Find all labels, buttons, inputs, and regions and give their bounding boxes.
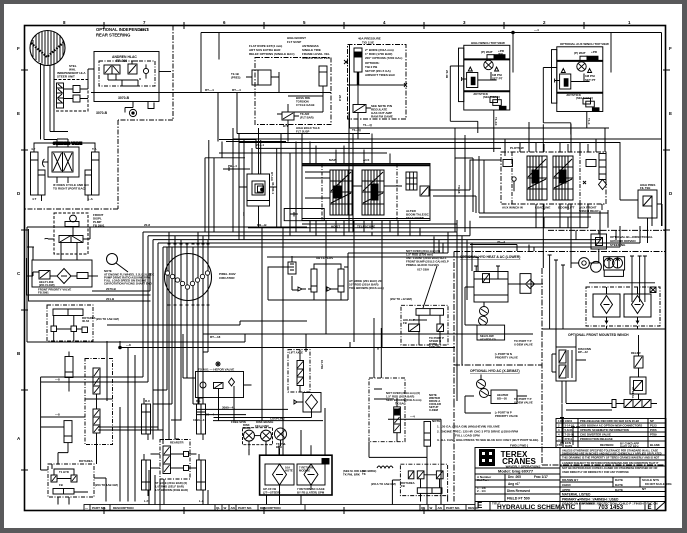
border zone ticks left bbox=[21, 70, 28, 470]
shuttle bbox=[490, 97, 498, 103]
right-mid pilot loop bbox=[390, 232, 517, 401]
svg-text:—4: —4 bbox=[410, 415, 415, 419]
svg-text:DESCRIPTION: DESCRIPTION bbox=[260, 506, 281, 510]
connector ticks below circle bbox=[168, 304, 210, 306]
AB LEVERS group bbox=[268, 256, 344, 300]
label text bbox=[57, 71, 86, 79]
label text bbox=[362, 469, 415, 488]
accumulator A2 bbox=[354, 48, 362, 72]
svg-text:10-70R: 10-70R bbox=[320, 360, 324, 369]
svg-text:4.T: 4.T bbox=[32, 197, 37, 201]
svg-text:DATE: DATE bbox=[565, 444, 573, 448]
node J1 bbox=[512, 31, 515, 34]
svg-text:1. 150 GA. (201A GM) (HM) (H: 1. 150 GA. (201A GM) (HM) (HEVM) VOLUME bbox=[437, 425, 500, 429]
svg-text:W: W bbox=[224, 506, 227, 510]
svg-text:T1 HYD: T1 HYD bbox=[59, 470, 69, 474]
svg-text:T1—Q: T1—Q bbox=[363, 123, 373, 127]
wire group bbox=[349, 112, 529, 128]
long verticals near pilot cluster bbox=[205, 140, 324, 240]
cylinder C-RO bbox=[369, 422, 431, 458]
manifold bbox=[474, 272, 508, 303]
svg-text:AN: AN bbox=[231, 506, 235, 510]
accumulator A1 bbox=[319, 66, 327, 86]
staircase bbox=[153, 247, 172, 404]
svg-text:E: E bbox=[648, 505, 652, 511]
svg-text:P123: P123 bbox=[650, 424, 657, 428]
independent steer unit box (dashed) bbox=[54, 69, 94, 111]
svg-text:(201 FLOW): (201 FLOW) bbox=[39, 283, 55, 287]
connector ticks above circle bbox=[168, 243, 210, 245]
svg-text:PRIMAL BLOCK VALVES: PRIMAL BLOCK VALVES bbox=[406, 263, 439, 267]
svg-text:RELIEF: RELIEF bbox=[631, 351, 641, 355]
steering wheel W1 bbox=[30, 31, 65, 66]
steering valve SV1 bbox=[31, 139, 100, 201]
pressure reducing valve PR1 bbox=[247, 174, 270, 201]
svg-text:—8: —8 bbox=[55, 378, 60, 382]
svg-text:TO RIGHT (PORT BAC): TO RIGHT (PORT BAC) bbox=[53, 187, 86, 191]
svg-text:BP—42: BP—42 bbox=[578, 350, 588, 354]
verticals joining bbox=[290, 142, 296, 237]
wire group bbox=[465, 375, 527, 414]
svg-text:OPTIONAL FRONT MOUNTED WINC: OPTIONAL FRONT MOUNTED WINCH bbox=[568, 333, 629, 337]
logo square bbox=[479, 449, 495, 466]
svg-text:DATE: DATE bbox=[615, 488, 623, 492]
rear axle enable valve bbox=[184, 362, 252, 398]
svg-text:3070-B: 3070-B bbox=[118, 96, 130, 100]
svg-text:Frac 1/17: Frac 1/17 bbox=[534, 475, 548, 479]
svg-text:FIELD FT 500: FIELD FT 500 bbox=[507, 497, 530, 501]
label text bbox=[38, 280, 71, 295]
svg-text:—4: —4 bbox=[534, 28, 539, 32]
label text bbox=[228, 143, 275, 227]
label text bbox=[106, 223, 150, 301]
svg-text:P456: P456 bbox=[650, 428, 657, 432]
manifold outline bbox=[302, 164, 430, 221]
border zone ticks right bbox=[663, 70, 670, 230]
label text bbox=[610, 235, 653, 247]
wire main supply bbox=[91, 92, 331, 94]
revision table text bbox=[557, 419, 660, 449]
svg-text:TK: TK bbox=[362, 472, 366, 476]
svg-text:W: W bbox=[430, 506, 433, 510]
svg-text:GRADE ON ■OPTIONS □PROTE: GRADE ON ■OPTIONS □PROTECTION □CHILD P □… bbox=[562, 502, 644, 506]
svg-text:RAM FM GAME: RAM FM GAME bbox=[371, 115, 393, 119]
border zone ticks top bbox=[104, 22, 584, 29]
pump suction / filter circuit box bbox=[27, 260, 98, 287]
svg-text:X-DEM: X-DEM bbox=[429, 408, 439, 412]
svg-text:ROTAREA: ROTAREA bbox=[79, 459, 93, 463]
svg-text:BRKE: BRKE bbox=[243, 426, 251, 430]
right margin long wire bbox=[611, 33, 662, 227]
svg-text:AUX WINCH W: AUX WINCH W bbox=[502, 206, 523, 210]
svg-text:LIFT AXLE: LIFT AXLE bbox=[289, 351, 303, 355]
brake release box bottom bbox=[48, 464, 94, 497]
svg-text:(202 TO +12 BM): (202 TO +12 BM) bbox=[390, 297, 412, 301]
svg-text:APPD: APPD bbox=[562, 488, 571, 492]
svg-text:Dims Removed: Dims Removed bbox=[507, 489, 530, 493]
wire RT-4 top bbox=[201, 32, 611, 34]
label text bbox=[390, 249, 449, 325]
lift axle filter bbox=[294, 393, 321, 418]
leader text bbox=[423, 266, 437, 308]
svg-text:/FB: /FB bbox=[498, 52, 504, 56]
coil bbox=[377, 466, 393, 468]
vertical x=218 hand pump to bus bbox=[217, 93, 219, 142]
steering links top-left bbox=[44, 132, 68, 140]
svg-text:(SELF BAC): (SELF BAC) bbox=[576, 96, 593, 100]
svg-text:NP: NP bbox=[650, 419, 654, 423]
spool stack bbox=[57, 83, 64, 108]
svg-text:CYCLE GAGE: CYCLE GAGE bbox=[296, 103, 315, 107]
tank box bbox=[77, 273, 88, 279]
svg-text:DATE OF REV: DATE OF REV bbox=[620, 445, 639, 449]
lockout valve tall box bbox=[85, 359, 113, 445]
svg-text:REAR STEERING: REAR STEERING bbox=[96, 33, 130, 38]
wire bus2 bbox=[148, 221, 470, 236]
svg-text:LTR: LTR bbox=[557, 443, 562, 447]
valve V1 bbox=[282, 112, 294, 120]
svg-text:Model: bmg 60X77: Model: bmg 60X77 bbox=[498, 469, 534, 474]
svg-text:RT—4: RT—4 bbox=[140, 28, 149, 32]
svg-text:QL: QL bbox=[216, 506, 220, 510]
svg-text:—8: —8 bbox=[126, 343, 131, 347]
svg-text:DRAWN BY: DRAWN BY bbox=[562, 478, 578, 482]
wire steering wheel to valve bbox=[44, 66, 50, 80]
svg-text:(JT—STEER): (JT—STEER) bbox=[263, 491, 280, 495]
svg-text:SET PT: SET PT bbox=[492, 77, 503, 81]
svg-text:RELEF OPTIONS (SINGLE BAC): RELEF OPTIONS (SINGLE BAC) bbox=[249, 52, 295, 56]
svg-text:(P) WHT: (P) WHT bbox=[574, 51, 586, 55]
svg-text:BLANK: BLANK bbox=[650, 443, 660, 447]
svg-text:FB: FB bbox=[403, 321, 407, 325]
svg-text:STEER UNIT: STEER UNIT bbox=[57, 75, 75, 79]
svg-text:LOANED SUBJECT TO RETURN UPON: LOANED SUBJECT TO RETURN UPON DEMAND AND… bbox=[562, 461, 659, 465]
pilot column extras bbox=[214, 139, 261, 240]
svg-text:(203 TO 1AB GM): (203 TO 1AB GM) bbox=[96, 317, 119, 321]
label text bbox=[193, 335, 235, 422]
bank drop wires long bbox=[262, 228, 283, 455]
label text bbox=[640, 183, 656, 190]
svg-text:WINCH REAR: WINCH REAR bbox=[579, 209, 599, 213]
svg-text:T1-X: T1-X bbox=[587, 118, 591, 125]
valve squares inside bbox=[104, 65, 112, 74]
svg-text:(FLT BAR): (FLT BAR) bbox=[300, 116, 314, 120]
svg-text:PRODUCTION RELEASE: PRODUCTION RELEASE bbox=[580, 437, 613, 441]
svg-text:AIRSOFT TIRES BAC: AIRSOFT TIRES BAC bbox=[365, 73, 396, 77]
svg-text:RT—4: RT—4 bbox=[205, 88, 214, 92]
svg-text:CTRBAL: CTRBAL bbox=[631, 387, 635, 399]
svg-text:T1-XX: T1-XX bbox=[494, 117, 498, 126]
svg-text:OPTIONAL HYD AC (X-DEMAT): OPTIONAL HYD AC (X-DEMAT) bbox=[470, 369, 520, 373]
drain line to gauge bbox=[125, 102, 133, 113]
spool boom lift bbox=[553, 156, 573, 200]
svg-text:—8: —8 bbox=[55, 413, 60, 417]
svg-text:DATE: DATE bbox=[615, 483, 623, 487]
svg-text:BY FB (LATER) GPM: BY FB (LATER) GPM bbox=[297, 491, 325, 495]
svg-text:X17 GBH: X17 GBH bbox=[417, 268, 429, 272]
note text block bbox=[104, 269, 154, 286]
svg-text:FB 2991: FB 2991 bbox=[38, 291, 49, 295]
wire group bbox=[33, 31, 63, 66]
svg-text:PRIORITY VALVE: PRIORITY VALVE bbox=[495, 414, 518, 418]
spool telescope bbox=[362, 170, 384, 215]
svg-text:MAIN: MAIN bbox=[329, 158, 337, 162]
svg-text:SCALE NTS: SCALE NTS bbox=[642, 478, 659, 482]
cylinder C1 bbox=[252, 70, 271, 85]
svg-text:PRIORITY VALVE: PRIORITY VALVE bbox=[495, 356, 518, 360]
motor circle M2 bbox=[577, 62, 586, 71]
bottom strip verticals bbox=[149, 470, 164, 505]
label text bbox=[96, 55, 137, 115]
svg-text:FB 200: FB 200 bbox=[116, 59, 127, 63]
spool hoist bbox=[330, 170, 352, 215]
svg-text:BOOM LIFT: BOOM LIFT bbox=[558, 206, 575, 210]
wire bus5 bbox=[163, 226, 620, 247]
svg-text:L.A: L.A bbox=[199, 499, 205, 503]
label text bbox=[560, 42, 609, 125]
svg-text:HOTE: HOTE bbox=[285, 469, 293, 473]
wheel hub circulator circle bbox=[165, 254, 212, 301]
svg-text:OPTIONAL AUX WINCH TOP VIE: OPTIONAL AUX WINCH TOP VIEW bbox=[560, 42, 609, 46]
svg-text:L.F: L.F bbox=[144, 499, 149, 503]
svg-text:RT—18: RT—18 bbox=[210, 335, 221, 339]
wires into rear steer valve bbox=[165, 438, 179, 441]
svg-text:LOADLINE: LOADLINE bbox=[535, 206, 550, 210]
check comp bbox=[634, 356, 643, 368]
svg-text:PART NO.: PART NO. bbox=[238, 506, 252, 510]
connecting verticals right half bbox=[455, 124, 648, 247]
relief section right bbox=[406, 172, 417, 190]
label text bbox=[263, 466, 365, 495]
svg-text:DIMENSIONS ARE IN INCHES AND I: DIMENSIONS ARE IN INCHES AND INCLUDE CHE… bbox=[562, 452, 662, 456]
svg-text:PLOTS.W: PLOTS.W bbox=[510, 146, 524, 150]
wire group bbox=[465, 266, 543, 340]
svg-text:FWD "P": FWD "P" bbox=[429, 345, 441, 349]
label text bbox=[144, 399, 205, 503]
label text bbox=[578, 347, 641, 399]
counterbalance bbox=[630, 377, 646, 394]
svg-text:20-1B: 20-1B bbox=[445, 70, 449, 79]
drain ticks bbox=[560, 418, 580, 446]
svg-text:MATERIAL LISTED: MATERIAL LISTED bbox=[562, 493, 591, 497]
label text bbox=[17, 20, 673, 441]
svg-text:201-B: 201-B bbox=[106, 297, 115, 301]
steering cylinders left pair bbox=[31, 152, 39, 195]
rear steer valve RSV (dashed) bbox=[151, 440, 197, 480]
wire bus4 bbox=[158, 226, 640, 243]
svg-text:FULL LOAD GPM: FULL LOAD GPM bbox=[455, 434, 480, 438]
label text bbox=[231, 72, 320, 134]
motor circle M bbox=[484, 60, 493, 69]
svg-text:DATE: DATE bbox=[615, 478, 623, 482]
svg-text:30-200-1: 30-200-1 bbox=[271, 182, 275, 194]
wire loop below suspension bbox=[237, 93, 370, 164]
chain V inside circle bbox=[165, 271, 209, 289]
svg-text:CHG DIVERTER VALVE: CHG DIVERTER VALVE bbox=[580, 433, 611, 437]
svg-text:BYP: BYP bbox=[283, 124, 289, 128]
misc left bbox=[27, 247, 33, 260]
svg-text:4.T: 4.T bbox=[31, 147, 36, 151]
svg-text:T/O 2.5E: T/O 2.5E bbox=[362, 41, 374, 45]
title block outline bbox=[475, 448, 666, 511]
label text bbox=[59, 459, 118, 487]
wire bus1 bbox=[143, 221, 457, 232]
right side extras bbox=[524, 245, 534, 252]
svg-text:UPDATE SCHEMATIC INFORMATION: UPDATE SCHEMATIC INFORMATION bbox=[580, 428, 629, 432]
logo cell bbox=[475, 448, 666, 511]
svg-text:E: E bbox=[17, 111, 20, 116]
svg-text:FIL TEE: FIL TEE bbox=[640, 186, 650, 190]
svg-text:PART NO.: PART NO. bbox=[92, 506, 106, 510]
horizontal runs lower center bbox=[27, 321, 533, 421]
svg-text:—: — bbox=[558, 437, 561, 441]
svg-text:TO AX1 — HEFOR VALVE: TO AX1 — HEFOR VALVE bbox=[198, 368, 234, 372]
svg-text:30-62: 30-62 bbox=[82, 319, 90, 323]
right pair bbox=[92, 152, 100, 195]
label text bbox=[338, 37, 402, 133]
pump circles P3 bbox=[477, 380, 486, 389]
svg-text:FLT SUSP: FLT SUSP bbox=[296, 130, 309, 134]
svg-text:Dec .005: Dec .005 bbox=[508, 475, 521, 479]
svg-text:PART NO.: PART NO. bbox=[446, 506, 460, 510]
svg-text:20-8: 20-8 bbox=[144, 223, 150, 227]
rear axle cylinders RC bbox=[142, 398, 206, 496]
svg-text:200" OPTIONS (7200 GAL): 200" OPTIONS (7200 GAL) bbox=[365, 56, 402, 60]
svg-text:1090—41: 1090—41 bbox=[193, 418, 206, 422]
svg-text:X-DEM VALVE: X-DEM VALVE bbox=[514, 401, 533, 405]
svg-text:REARSTR: REARSTR bbox=[170, 441, 184, 445]
label text bbox=[85, 506, 479, 510]
label text bbox=[316, 256, 384, 290]
svg-text:+PR: +PR bbox=[591, 50, 598, 54]
valve bbox=[483, 274, 490, 283]
svg-text:AN: AN bbox=[438, 506, 442, 510]
svg-text:DESCRIPTION: DESCRIPTION bbox=[113, 506, 134, 510]
svg-text:TK BAC: TK BAC bbox=[395, 402, 406, 406]
condenser diamond bbox=[526, 280, 535, 289]
svg-text:TELE DOWN: TELE DOWN bbox=[406, 216, 424, 220]
svg-text:SET PT: SET PT bbox=[585, 78, 596, 82]
left inlet bbox=[503, 160, 513, 167]
wire -8 junction bbox=[27, 227, 455, 401]
valve V2 bbox=[353, 105, 366, 113]
svg-text:DO NOT SCALE DWG: DO NOT SCALE DWG bbox=[645, 482, 672, 486]
svg-text:FWD [ FWD ]: FWD [ FWD ] bbox=[510, 444, 528, 448]
label text bbox=[231, 417, 286, 450]
svg-text:T1—Q: T1—Q bbox=[352, 128, 362, 132]
svg-text:DESCR: DESCR bbox=[468, 506, 479, 510]
inter-bank wires bbox=[433, 160, 501, 190]
svg-text:QL: QL bbox=[421, 506, 425, 510]
label text bbox=[429, 334, 533, 360]
border zone ticks bottom bbox=[104, 507, 424, 514]
filter F1 bbox=[57, 269, 71, 284]
suspension text block bbox=[249, 36, 330, 60]
svg-text:SINGLE ROAD VEH: SINGLE ROAD VEH bbox=[302, 56, 330, 60]
nested return frame lines bbox=[27, 227, 308, 301]
svg-text:R.C: R.C bbox=[145, 399, 151, 403]
wire bus3 bbox=[153, 211, 600, 240]
svg-text:HIGH WINCH TOP VIEW: HIGH WINCH TOP VIEW bbox=[471, 41, 505, 45]
hydraulic tank with return filters bbox=[260, 455, 332, 495]
supply rails to second bank bbox=[233, 139, 662, 143]
lift axle valve (dash-dot) bbox=[288, 350, 310, 393]
label text bbox=[329, 158, 430, 229]
svg-text:FB: FB bbox=[401, 484, 405, 488]
right part rows bbox=[560, 455, 666, 497]
svg-text:20—1: 20—1 bbox=[256, 143, 264, 147]
text above bbox=[386, 391, 421, 406]
svg-text:PRE-RELEASE RECORD NO SER ECN: PRE-RELEASE RECORD NO SER ECN 20-98 bbox=[580, 419, 639, 423]
svg-text:FB: FB bbox=[59, 483, 63, 487]
svg-text:(P) WHT: (P) WHT bbox=[481, 50, 493, 54]
svg-text:Ang ±1°: Ang ±1° bbox=[508, 482, 521, 486]
gauge circle G1 bbox=[107, 254, 129, 273]
suspension dash-dot box SB1 bbox=[246, 58, 331, 131]
heater core box bbox=[520, 274, 531, 294]
svg-text:BD—20: BD—20 bbox=[497, 397, 507, 401]
svg-text:HEATER FB: HEATER FB bbox=[480, 338, 496, 342]
svg-text:2 - 1/4: 2 - 1/4 bbox=[477, 489, 486, 493]
svg-text:20-8: 20-8 bbox=[338, 95, 342, 101]
svg-text:5-8-01: 5-8-01 bbox=[565, 428, 574, 432]
svg-text:—: — bbox=[85, 506, 88, 510]
winch control spool bbox=[556, 347, 576, 381]
wires above main bank bbox=[256, 147, 501, 149]
svg-text:Std Part: Std Part bbox=[477, 478, 489, 482]
axle lockout box upper bbox=[47, 305, 93, 341]
svg-text:USED DIRECTLY OR INDIRECTLY FO: USED DIRECTLY OR INDIRECTLY FOR ANY PURP… bbox=[562, 470, 629, 474]
lower right connectors bbox=[421, 457, 448, 501]
cylinder C-LX2 bbox=[41, 417, 85, 453]
svg-text:RT—4: RT—4 bbox=[232, 88, 241, 92]
svg-text:(PRES): (PRES) bbox=[231, 76, 241, 80]
svg-text:ADD BOOM A AC OPTION NEW CONNE: ADD BOOM A AC OPTION NEW CONNECTORS bbox=[580, 424, 642, 428]
svg-text:TO-18: TO-18 bbox=[457, 185, 461, 194]
label text bbox=[155, 441, 188, 493]
spool aux winch bbox=[527, 156, 547, 200]
revision table bbox=[556, 419, 666, 448]
svg-text:MODINE: MODINE bbox=[299, 469, 310, 473]
svg-text:STEERING: STEERING bbox=[610, 243, 626, 247]
wire group bbox=[552, 335, 657, 445]
svg-text:CHKD: CHKD bbox=[562, 483, 571, 487]
left bundle verticals bbox=[143, 232, 163, 440]
label rear steering bbox=[69, 27, 149, 72]
gerotor pumps bbox=[579, 258, 590, 269]
label text bbox=[445, 41, 505, 126]
wire group bbox=[265, 445, 329, 490]
cylinder C-LX1 bbox=[41, 352, 143, 431]
svg-text:3. ALL CASE HIGH PRESS TO SE: 3. ALL CASE HIGH PRESS TO SEE BLUE ECC O… bbox=[437, 438, 539, 442]
svg-text:TK PNL BRK: TK PNL BRK bbox=[343, 473, 360, 477]
wire group bbox=[548, 230, 656, 329]
svg-text:703 1453: 703 1453 bbox=[598, 505, 624, 511]
svg-text:FLT SUSP: FLT SUSP bbox=[287, 40, 301, 44]
wire below bank bbox=[248, 204, 588, 228]
wires to AB levers bbox=[292, 276, 298, 290]
motor block bbox=[487, 55, 494, 60]
svg-text:X-DEM VALVE: X-DEM VALVE bbox=[514, 343, 533, 347]
svg-text:K.L: K.L bbox=[196, 399, 201, 403]
svg-text:20—4: 20—4 bbox=[497, 240, 505, 244]
right section bbox=[586, 160, 596, 167]
brake valve bbox=[467, 73, 478, 88]
label text bbox=[93, 213, 105, 228]
notes block left of rev table bbox=[432, 419, 539, 448]
label text bbox=[219, 272, 236, 280]
wire -4 mid bottom bbox=[388, 419, 441, 464]
